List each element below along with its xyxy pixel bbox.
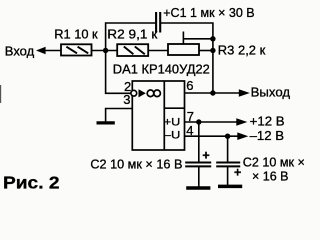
svg-text:С2 10 мк × 16 В: С2 10 мк × 16 В [90,157,182,171]
svg-text:7: 7 [187,109,194,124]
svg-text:4: 4 [186,123,193,138]
svg-text:R2 9,1 к: R2 9,1 к [107,27,157,42]
svg-text:R3 2,2 к: R3 2,2 к [218,42,266,57]
svg-text:+U: +U [164,117,181,129]
svg-text:С2 10 мк ×: С2 10 мк × [243,156,305,170]
svg-text:R1 10 к: R1 10 к [54,27,98,42]
svg-text:+12 В: +12 В [250,113,285,128]
svg-text:+С1 1 мк × 30 В: +С1 1 мк × 30 В [163,5,255,20]
svg-text:6: 6 [186,78,193,93]
svg-text:Рис. 2: Рис. 2 [3,173,60,193]
svg-text:× 16 В: × 16 В [252,170,289,184]
svg-text:+: + [234,166,241,180]
svg-text:–U: –U [164,130,181,142]
svg-text:Выход: Выход [251,85,291,100]
svg-text:Вход: Вход [5,43,35,58]
svg-text:+: + [202,149,209,163]
svg-text:3: 3 [123,92,130,107]
svg-text:–12 В: –12 В [250,128,285,143]
svg-text:DA1 КР140УД22: DA1 КР140УД22 [113,62,210,76]
